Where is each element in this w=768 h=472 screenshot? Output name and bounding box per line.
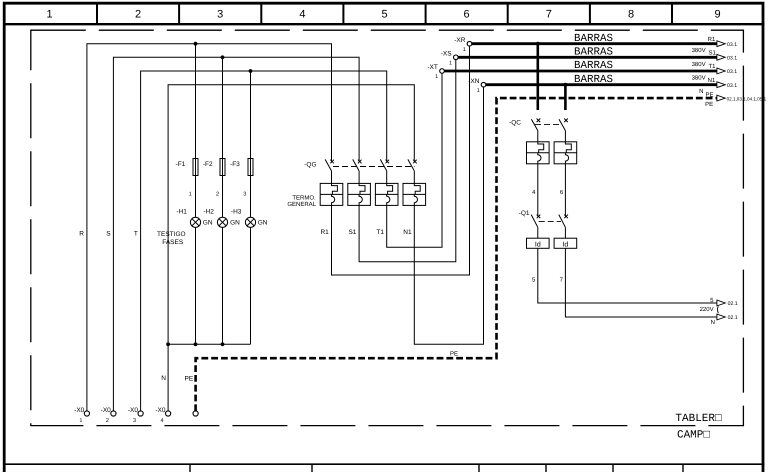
svg-text:GENERAL: GENERAL [287, 201, 316, 208]
svg-text:FASES: FASES [162, 239, 184, 246]
svg-text:-QG: -QG [304, 162, 316, 169]
breaker QG pole 2: contact [353, 159, 362, 171]
connector -X0:4 [166, 411, 171, 416]
svg-text:PE: PE [450, 351, 458, 358]
tablero dashed boundary [31, 30, 744, 425]
svg-text:-H3: -H3 [231, 209, 242, 216]
wire S1 routing to -XS [359, 60, 456, 262]
QC pole 2 wire to Q1 [564, 164, 566, 217]
svg-text:-F1: -F1 [176, 161, 186, 168]
svg-text:BARRAS: BARRAS [574, 74, 613, 86]
busbar N1 [486, 83, 717, 86]
QG pole 1 wire contact-to-box [331, 171, 333, 184]
QC pole 2 thermal-magnetic box [554, 142, 577, 164]
connector PE bottom [193, 411, 198, 416]
lamp H1 [190, 217, 200, 227]
svg-text:-XR: -XR [454, 37, 466, 44]
Q1 pole 1 wire to Id [537, 227, 539, 238]
svg-text:T1: T1 [708, 63, 716, 70]
svg-text:-XT: -XT [427, 64, 438, 71]
wire T1 routing to -XT [387, 73, 442, 247]
QG pole 4 thermal-magnetic box [403, 183, 426, 205]
QG mechanical linkage (dashed) [333, 166, 415, 168]
svg-text:N: N [161, 375, 166, 382]
node dot N bus / lamp1 [194, 342, 198, 346]
svg-text:BARRAS: BARRAS [574, 60, 613, 72]
svg-text:TERMO.: TERMO. [292, 194, 316, 201]
svg-text:R: R [79, 230, 84, 237]
QG pole 4 wire contact-to-box [413, 171, 415, 184]
wire fuse branch 2 [222, 57, 224, 344]
Id box pole 2 [554, 238, 577, 248]
breaker QG pole 4: contact [408, 159, 417, 171]
connector -XS [454, 55, 459, 60]
thick tap from busbar R1 to QC [536, 44, 539, 110]
svg-text:CAMP□: CAMP□ [677, 430, 710, 442]
svg-text:-H2: -H2 [203, 209, 214, 216]
svg-text:-X0: -X0 [155, 407, 166, 414]
node dot tap R1 [536, 42, 540, 46]
header divider 2/3 [178, 3, 180, 24]
svg-text:2: 2 [216, 191, 219, 197]
svg-text:1: 1 [449, 61, 452, 67]
breaker QG pole 3: contact [380, 159, 389, 171]
QG pole 3 wire contact-to-box [386, 171, 388, 184]
svg-text:1: 1 [435, 74, 438, 80]
node dot fuse tap F3 on row T [249, 69, 253, 73]
svg-text:02.1: 02.1 [728, 315, 738, 321]
title block top line [3, 463, 764, 465]
svg-text:T: T [134, 230, 138, 237]
svg-text:-X0: -X0 [74, 407, 85, 414]
svg-text:R1: R1 [320, 229, 329, 236]
wire N1 routing to -XN [414, 87, 483, 344]
connector -XT [440, 69, 445, 74]
svg-text:03.1: 03.1 [727, 83, 737, 89]
QG pole 3 thermal-magnetic box [375, 183, 398, 205]
node dot N bus / lamp2 [221, 342, 225, 346]
svg-text:BARRAS: BARRAS [574, 47, 613, 59]
fuse F2 [220, 159, 225, 176]
svg-text:220V: 220V [700, 306, 714, 313]
svg-text:S1: S1 [708, 49, 716, 56]
svg-text:02.1,03.1,04.1,05.1: 02.1,03.1,04.1,05.1 [727, 96, 767, 101]
fuse F1 [193, 159, 198, 176]
wire N lamp bus [168, 343, 250, 345]
svg-text:2: 2 [106, 418, 109, 424]
svg-text:-H1: -H1 [176, 209, 187, 216]
svg-text:02.1: 02.1 [728, 301, 738, 307]
svg-text:4: 4 [299, 9, 305, 21]
PE conductor (thick dashed) [196, 98, 717, 411]
voltage squiggle between 220V lines [716, 306, 719, 313]
breaker QG pole 1: contact [325, 159, 334, 171]
svg-text:S1: S1 [348, 229, 356, 236]
svg-text:380V: 380V [692, 47, 706, 54]
header divider 1/2 [96, 3, 98, 24]
node dot fuse tap F1 on row R [194, 42, 198, 46]
title block dividers [190, 465, 683, 472]
node dot N bus / N riser [166, 342, 170, 346]
svg-text:TESTIGO: TESTIGO [157, 231, 186, 238]
svg-text:03.1: 03.1 [727, 69, 737, 75]
svg-text:4: 4 [161, 418, 164, 424]
svg-text:-F2: -F2 [203, 161, 213, 168]
wire fuse branch 3 (corner into N bus) [250, 71, 252, 344]
svg-text:N1: N1 [403, 229, 412, 236]
wire N feed [168, 85, 414, 412]
wire fuse branch 1 [195, 44, 197, 345]
svg-text:380V: 380V [692, 61, 706, 68]
svg-text:N: N [711, 319, 715, 326]
QC pole 1 thermal-magnetic box [527, 142, 550, 164]
header divider 5/6 [425, 3, 427, 24]
busbar R1 [472, 42, 717, 45]
wire output N (to 220V) [565, 248, 717, 317]
lamp H2 [217, 217, 227, 227]
svg-text:GN: GN [230, 220, 240, 227]
header divider 6/7 [507, 3, 509, 24]
wire R feed (L-shape from -X0:1 riser to QG pole 1) [87, 44, 332, 412]
arrow busbar N1 [717, 82, 725, 88]
svg-text:6: 6 [464, 9, 470, 21]
wire R1 routing to -XR [332, 46, 470, 275]
breaker Q1 pole 2 contact [559, 215, 568, 228]
svg-text:-XS: -XS [441, 51, 453, 58]
QC pole 2 wire to box [564, 131, 566, 142]
svg-text:-Q1: -Q1 [519, 210, 530, 217]
svg-text:Id: Id [562, 240, 568, 248]
header band bottom line [3, 23, 764, 25]
QC pole 1 wire to box [537, 131, 539, 142]
arrow busbar R1 [717, 41, 725, 47]
svg-text:7: 7 [546, 9, 552, 21]
svg-text:1: 1 [79, 418, 82, 424]
Q1 pole 2 wire to Id [564, 227, 566, 238]
svg-text:PE: PE [705, 101, 713, 108]
wire S feed [113, 57, 359, 411]
QG pole 2 wire contact-to-box [358, 171, 360, 184]
lamp H3 [245, 217, 255, 227]
svg-text:-XN: -XN [468, 78, 480, 85]
svg-text:Id: Id [535, 240, 541, 248]
contactor QC pole 2 contact [559, 119, 568, 131]
contactor QC pole 1 contact [531, 119, 540, 131]
svg-text:8: 8 [628, 9, 634, 21]
svg-text:2: 2 [135, 9, 141, 21]
arrow PE [717, 95, 725, 101]
svg-text:T1: T1 [376, 229, 384, 236]
svg-text:03.1: 03.1 [727, 42, 737, 48]
svg-text:5: 5 [381, 9, 387, 21]
QC linkage dashed [535, 123, 562, 125]
arrow 220V line 5 [717, 300, 725, 306]
svg-text:-X0: -X0 [128, 407, 139, 414]
svg-text:TABLER□: TABLER□ [675, 413, 722, 425]
svg-text:3: 3 [217, 9, 223, 21]
svg-text:1: 1 [477, 88, 480, 94]
breaker Q1 pole 1 contact [531, 215, 540, 228]
QC pole 1 wire to Q1 [537, 164, 539, 217]
svg-text:R1: R1 [708, 36, 716, 43]
connector -X0:1 [84, 411, 89, 416]
QG pole 2 thermal-magnetic box [348, 183, 371, 205]
header divider 8/9 [671, 3, 673, 24]
svg-text:3: 3 [243, 191, 246, 197]
svg-text:GN: GN [203, 220, 213, 227]
svg-text:-F3: -F3 [230, 161, 240, 168]
wire T feed [141, 71, 387, 411]
svg-text:N1: N1 [708, 77, 716, 84]
thick tap from busbar N1 to QC [564, 85, 567, 110]
svg-text:PE: PE [705, 91, 713, 98]
svg-text:-QC: -QC [509, 120, 521, 127]
svg-text:1: 1 [46, 9, 52, 21]
connector -X0:2 [111, 411, 116, 416]
header divider 4/5 [342, 3, 344, 24]
svg-text:PE: PE [185, 376, 194, 383]
header column numbers [46, 9, 720, 21]
svg-text:-X0: -X0 [101, 407, 112, 414]
svg-text:03.1: 03.1 [727, 56, 737, 62]
svg-text:1: 1 [463, 47, 466, 53]
header divider 3/4 [260, 3, 262, 24]
busbar T1 [444, 70, 717, 73]
Id box pole 1 [527, 238, 550, 248]
Q1 linkage dashed [539, 220, 561, 222]
svg-text:N: N [699, 88, 703, 95]
svg-text:S: S [106, 230, 111, 237]
header divider 7/8 [589, 3, 591, 24]
QG pole 1 thermal-magnetic box [320, 183, 343, 205]
node dot fuse tap F2 on row S [221, 55, 225, 59]
node dot tap N1 [564, 83, 568, 87]
svg-text:9: 9 [714, 9, 720, 21]
arrow 220V line N [717, 314, 725, 320]
svg-text:GN: GN [258, 220, 268, 227]
connector -X0:3 [138, 411, 143, 416]
svg-text:3: 3 [133, 418, 136, 424]
busbar S1 [458, 56, 717, 59]
arrow busbar S1 [717, 54, 725, 60]
svg-text:1: 1 [189, 191, 192, 197]
connector -XN [481, 82, 486, 87]
connector -XR [467, 41, 472, 46]
fuse F3 [248, 159, 253, 176]
svg-text:380V: 380V [692, 75, 706, 82]
svg-text:BARRAS: BARRAS [574, 33, 613, 45]
arrow busbar T1 [717, 68, 725, 74]
wire output 5 (to 220V) [538, 248, 717, 303]
